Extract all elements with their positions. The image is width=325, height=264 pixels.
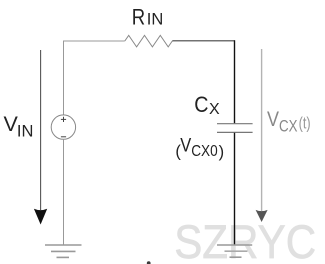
wire left vertical upper (63, 41, 65, 116)
VIN arrow line (40, 50, 42, 210)
artifact dot bottom center (147, 261, 151, 264)
VIN arrowhead (34, 209, 47, 225)
VCX(t) arrowhead (256, 210, 268, 222)
svg-text:IN: IN (147, 11, 164, 29)
wire top-left horizontal (63, 40, 125, 42)
capacitor CX plates (217, 124, 253, 133)
voltage source plus sign (61, 117, 66, 122)
svg-text:CX0: CX0 (191, 143, 218, 160)
svg-text:(t): (t) (299, 114, 311, 133)
voltage source V1 circle (51, 115, 75, 139)
resistor RIN (125, 35, 173, 47)
svg-text:C: C (194, 92, 208, 117)
wire right vertical upper (234, 40, 236, 123)
wire left vertical lower (63, 139, 65, 245)
svg-text:R: R (132, 5, 145, 30)
svg-text:V: V (180, 134, 191, 156)
VCX(t) arrow line (261, 49, 263, 211)
voltage source minus sign (61, 136, 66, 138)
wire right vertical lower (234, 133, 236, 245)
ground right (217, 245, 252, 257)
svg-text:): ) (219, 143, 225, 161)
ground left (45, 245, 82, 257)
svg-text:V: V (267, 108, 279, 131)
svg-text:SZRYC: SZRYC (174, 215, 316, 264)
svg-text:IN: IN (17, 122, 34, 140)
wire top-right horizontal (172, 40, 235, 42)
svg-text:X: X (209, 101, 220, 118)
svg-text:CX: CX (279, 116, 298, 135)
